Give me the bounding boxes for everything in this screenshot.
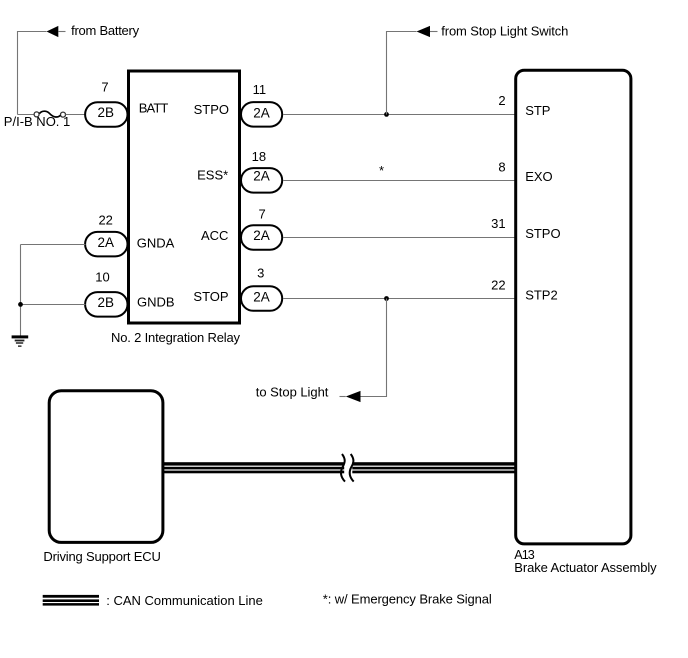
fusible link P/I-B NO. 1 [34, 111, 65, 117]
wire from stop light switch vertical [387, 32, 417, 115]
connector 2A (STPO pin) [241, 102, 282, 127]
wire from battery: top horizontal lead [18, 32, 47, 115]
svg-text:STPO: STPO [194, 102, 229, 117]
ECU box Driving Support ECU [49, 391, 163, 543]
svg-text:ACC: ACC [201, 228, 228, 243]
node junction to stop light [384, 296, 389, 301]
svg-text:Driving Support ECU: Driving Support ECU [43, 549, 160, 564]
svg-text:*: w/ Emergency Brake Signal: *: w/ Emergency Brake Signal [323, 591, 492, 606]
svg-text:2A: 2A [253, 105, 270, 120]
wire STPO to STP [283, 114, 515, 116]
wire ESS to EXO [283, 180, 515, 182]
legend CAN line symbol [43, 595, 99, 606]
arrow from Stop Light Switch [417, 26, 438, 37]
connector 2B (BATT pin) [85, 102, 127, 127]
svg-text:2A: 2A [253, 168, 270, 183]
wire fusible link to connector 2B [66, 114, 86, 116]
svg-text:STPO: STPO [525, 226, 560, 241]
svg-text:2A: 2A [98, 235, 115, 250]
node junction stop light switch [384, 112, 389, 117]
arrow to Stop Light [340, 391, 361, 402]
connector 2A (ESS pin) [241, 168, 282, 193]
svg-text:STOP: STOP [193, 289, 228, 304]
svg-text:STP2: STP2 [525, 288, 558, 303]
svg-text:2B: 2B [98, 105, 115, 120]
wire GNDB to left rail [21, 304, 86, 306]
svg-text:7: 7 [258, 207, 265, 222]
wire CAN bus right segment [352, 462, 516, 473]
wire GNDA to left rail [21, 244, 86, 246]
svg-text:P/I-B NO. 1: P/I-B NO. 1 [4, 114, 70, 129]
wire to stop light branch [361, 299, 387, 397]
wire battery to fusible link [18, 114, 35, 116]
svg-text:7: 7 [101, 79, 108, 94]
svg-text:Brake Actuator Assembly: Brake Actuator Assembly [514, 560, 657, 575]
relay box No. 2 Integration Relay [129, 71, 240, 323]
connector 2A (ACC pin) [241, 225, 282, 250]
svg-text:STP: STP [525, 103, 550, 118]
wire STOP to STP2 [283, 298, 515, 300]
brake actuator assembly box A13 [516, 70, 631, 544]
svg-text:8: 8 [498, 160, 505, 175]
svg-text:EXO: EXO [525, 169, 552, 184]
svg-text:No. 2 Integration Relay: No. 2 Integration Relay [111, 330, 241, 345]
svg-text:from Battery: from Battery [71, 23, 140, 38]
svg-text:*: * [379, 163, 384, 178]
svg-text:31: 31 [491, 216, 505, 231]
svg-text:GNDA: GNDA [137, 236, 175, 251]
connector 2B (GNDB pin) [85, 292, 127, 317]
svg-text:from Stop Light Switch: from Stop Light Switch [441, 24, 568, 39]
svg-text:2B: 2B [98, 295, 115, 310]
svg-text:2: 2 [498, 93, 505, 108]
node ground junction [18, 302, 23, 307]
svg-text:10: 10 [95, 269, 109, 284]
svg-text:22: 22 [98, 213, 112, 228]
wire ground rail vertical [20, 245, 22, 336]
svg-text:11: 11 [253, 82, 267, 97]
wire ACC to STPO [283, 237, 515, 239]
svg-text:2A: 2A [253, 228, 270, 243]
wire break symbol [341, 454, 354, 482]
svg-text:GNDB: GNDB [137, 295, 175, 310]
svg-text:3: 3 [257, 266, 264, 281]
connector 2A (STOP pin) [241, 286, 282, 311]
svg-text:2A: 2A [253, 289, 270, 304]
arrow from Battery [47, 26, 66, 37]
svg-text:BATT: BATT [139, 101, 169, 116]
svg-text:22: 22 [491, 277, 505, 292]
connector 2A (GNDA pin) [85, 232, 127, 257]
wire CAN bus left segment [164, 462, 344, 473]
svg-text:to Stop Light: to Stop Light [256, 385, 329, 400]
svg-text:18: 18 [252, 149, 266, 164]
svg-text:: CAN Communication Line: : CAN Communication Line [106, 593, 262, 608]
svg-text:ESS*: ESS* [197, 167, 228, 182]
ground [12, 335, 29, 347]
